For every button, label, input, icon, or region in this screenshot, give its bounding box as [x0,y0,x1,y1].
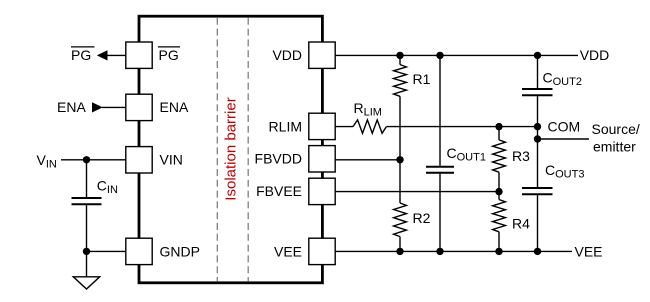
node VIN junction [83,156,90,163]
resistor R2 [394,203,407,237]
svg-text:ENA: ENA [160,99,189,115]
node R1 top [396,52,403,59]
svg-text:VEE: VEE [575,243,603,259]
wire R1 stem top [399,55,401,64]
resistor R1 [394,65,407,97]
node R2 bottom [396,248,403,255]
node COUT3 bottom [534,248,541,255]
pin FBVDD box [309,146,335,172]
wire source-emitter [538,138,590,140]
wire VIN [61,159,126,161]
svg-text:COM: COM [548,119,581,135]
resistor RLIM [353,120,386,133]
capacitor COUT3 [522,187,553,189]
wire R1 bottom to R2 top [399,96,401,203]
pin RLIM box [309,113,335,139]
wire GNDP [87,250,127,252]
node source-emitter junction [534,135,541,142]
svg-text:ENA: ENA [57,99,86,115]
wire FBVEE [335,191,499,193]
wire COUT2 bottom [537,96,539,139]
wire COM rail [387,126,538,128]
svg-text:VIN: VIN [160,152,183,168]
svg-text:FBVEE: FBVEE [256,183,302,199]
svg-text:Source/: Source/ [592,121,640,137]
node COM junction [534,123,541,130]
node COUT1 bottom [436,248,443,255]
ground [86,251,88,276]
svg-text:R3: R3 [512,148,530,164]
pin PG box [126,42,152,68]
IC body U1 [139,16,322,283]
svg-text:R4: R4 [512,216,530,232]
pin FBVEE box [309,178,335,204]
pin VEE box [309,238,335,264]
wire COUT2 top [537,55,539,88]
svg-text:FBVDD: FBVDD [255,151,302,167]
svg-text:Isolation barrier: Isolation barrier [223,97,240,200]
wire CIN top [86,160,88,197]
wire COUT3 top [537,139,539,187]
wire RLIM stem left [335,126,353,128]
ENA input arrow [92,102,103,112]
wire VDD rail [335,54,578,56]
svg-text:VEE: VEE [274,243,302,259]
svg-text:VDD: VDD [272,47,302,63]
wire COUT1 bottom [439,174,441,252]
node R3 top [495,123,502,130]
node COUT2 top [534,52,541,59]
wire CIN bottom [86,205,88,251]
wire COUT3 bottom [537,195,539,251]
svg-text:VDD: VDD [580,47,610,63]
svg-text:PG: PG [71,47,91,63]
node FBVDD junction [396,156,403,163]
node FBVEE junction [495,188,502,195]
svg-text:PG: PG [159,47,179,63]
wire COUT1 top [439,55,441,165]
pin GNDP box [126,238,152,264]
node GNDP junction [83,248,90,255]
capacitor COUT2 [522,88,553,90]
svg-text:R2: R2 [413,210,431,226]
resistor R3 [493,140,506,172]
svg-text:RLIM: RLIM [269,118,302,134]
wire FBVDD [335,159,400,161]
pin VIN box [126,147,152,173]
pin ENA box [126,94,152,120]
node R4 bottom [495,248,502,255]
pin VDD box [309,42,335,68]
wire R3 bottom to R4 top [498,172,500,199]
node COUT1 top [436,52,443,59]
PG output arrow [97,50,108,60]
wire R2 bottom [399,237,401,252]
wire R3 stem top [498,127,500,140]
isolation barrier dashed line right [247,18,249,281]
wire PG output [107,54,127,56]
resistor R4 [493,200,506,232]
wire VEE rail [335,250,572,252]
isolation barrier dashed line left [216,18,218,281]
svg-text:GNDP: GNDP [160,243,200,259]
wire ENA input [102,106,126,108]
capacitor CIN [72,197,102,199]
svg-text:R1: R1 [413,71,431,87]
capacitor COUT1 [426,166,454,168]
wire R4 bottom [498,232,500,252]
svg-text:emitter: emitter [593,138,636,154]
